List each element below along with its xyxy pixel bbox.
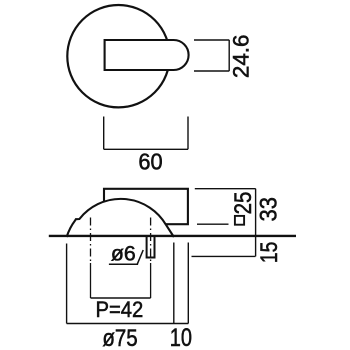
square symbol of square-25 label [235, 216, 244, 225]
dim ø75/10: horizontal dimension line [67, 323, 189, 325]
side view: mounting block [104, 189, 188, 224]
side view: rubber dome [67, 199, 174, 237]
centerline right lower solid [150, 263, 152, 298]
svg-text:25: 25 [229, 192, 256, 215]
side view: ø6 pin below floor [147, 236, 155, 257]
top view: rose circle outline [67, 5, 169, 107]
dim 60: horizontal dimension line [104, 148, 188, 150]
svg-text:P=42: P=42 [95, 297, 143, 322]
ø6 leader slash [137, 250, 143, 264]
dim 60: right extension line [187, 117, 189, 150]
dim ø75/10: right extension line [187, 243, 189, 324]
right dims: pin-bottom extension tick [192, 255, 256, 257]
svg-text:ø75: ø75 [102, 324, 137, 350]
svg-text:60: 60 [138, 149, 162, 175]
dim 24.6: bottom extension tick [194, 70, 229, 72]
centerline left lower solid [90, 263, 92, 298]
svg-text:10: 10 [170, 324, 192, 350]
right dims: block-bottom extension tick [197, 223, 229, 225]
svg-text:ø6: ø6 [111, 241, 136, 265]
dim 24.6: top extension tick [194, 39, 229, 41]
svg-text:15: 15 [255, 242, 283, 263]
svg-text:33: 33 [255, 197, 282, 222]
right dims: vertical dimension line [255, 189, 257, 257]
dim ø75/10: middle extension line [173, 243, 175, 324]
centerline left (dash-dot) [90, 218, 92, 264]
top view: lever handle (stadium shape) [105, 40, 189, 70]
ø6 leader underline [109, 263, 138, 265]
dim 24.6: vertical dimension line [228, 40, 230, 71]
dim 60: left extension line [103, 117, 105, 150]
right dims: top extension tick [195, 188, 256, 190]
dim ø75/10: left extension line [66, 244, 68, 324]
centerline right (dash-dot) [150, 218, 152, 264]
side view: floor line [49, 235, 296, 237]
dim P=42: horizontal dimension line [91, 297, 151, 299]
svg-text:24.6: 24.6 [228, 35, 253, 79]
